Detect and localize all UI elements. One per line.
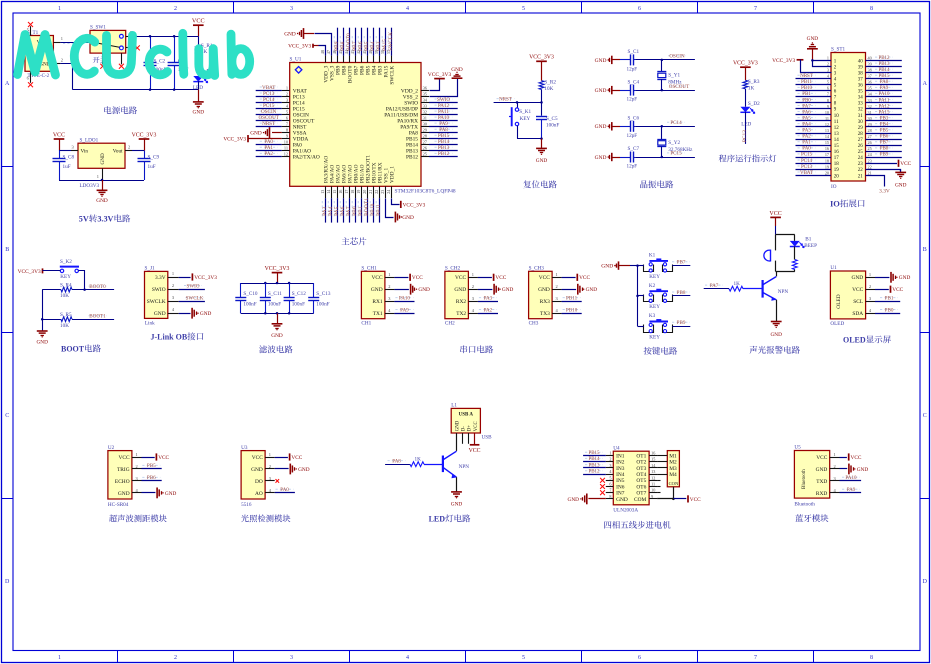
svg-text:8: 8 <box>827 98 829 103</box>
svg-text:TX3: TX3 <box>540 311 550 317</box>
svg-text:B: B <box>923 247 927 253</box>
connector S_T1 (TYPE-C power input) <box>25 30 53 79</box>
svg-text:10K: 10K <box>60 293 69 299</box>
svg-text:8: 8 <box>609 494 611 499</box>
svg-text:12: 12 <box>834 126 840 131</box>
svg-text:VCC_3V3: VCC_3V3 <box>132 132 157 138</box>
svg-text:21: 21 <box>368 190 373 194</box>
svg-text:PA11: PA11 <box>879 98 890 103</box>
svg-text:VCC: VCC <box>455 275 466 281</box>
svg-text:GND: GND <box>568 497 580 503</box>
svg-text:S_C2: S_C2 <box>154 58 166 64</box>
svg-text:5: 5 <box>609 475 611 480</box>
svg-text:11: 11 <box>651 482 655 487</box>
svg-text:GND: GND <box>538 287 550 293</box>
svg-text:BOOT0: BOOT0 <box>89 284 106 290</box>
U1 right pin names <box>384 88 418 160</box>
svg-text:VCC: VCC <box>158 455 169 461</box>
key K2 <box>644 283 673 310</box>
title J-Link OB接口 <box>151 332 204 341</box>
svg-text:35: 35 <box>868 86 872 91</box>
capacitor S_C2 100nF <box>144 36 167 89</box>
svg-text:U5: U5 <box>794 445 801 451</box>
wire T1 pin1 VBUS to switch <box>53 36 92 43</box>
svg-text:GND: GND <box>418 287 430 293</box>
svg-text:20: 20 <box>825 170 829 175</box>
title 超声波测距模块 <box>109 515 167 523</box>
svg-text:Vin: Vin <box>81 149 89 155</box>
buzzer B1 <box>764 236 817 261</box>
svg-text:L1: L1 <box>451 403 457 409</box>
svg-text:S_C1: S_C1 <box>628 49 640 55</box>
svg-text:3: 3 <box>827 68 829 73</box>
svg-text:30: 30 <box>868 116 872 121</box>
svg-text:D+: D+ <box>468 425 473 431</box>
svg-text:GND: GND <box>454 287 466 293</box>
svg-text:OT2: OT2 <box>636 460 646 466</box>
svg-text:IN2: IN2 <box>616 460 625 466</box>
U1 top pin wires and net labels <box>334 28 394 56</box>
svg-text:VCC_3V3: VCC_3V3 <box>428 72 452 78</box>
svg-text:35: 35 <box>858 90 864 95</box>
svg-text:2: 2 <box>135 464 137 469</box>
svg-text:2: 2 <box>128 145 130 150</box>
transistor Q NPN alarm <box>763 277 789 301</box>
U1 bottom pin names <box>323 155 395 183</box>
title 电源电路 <box>104 106 137 114</box>
svg-text:11: 11 <box>834 120 839 125</box>
svg-text:31: 31 <box>868 110 872 115</box>
svg-text:1: 1 <box>388 272 390 277</box>
key S_K2 boot button <box>60 259 79 280</box>
svg-text:1uF: 1uF <box>63 164 71 170</box>
svg-text:1K: 1K <box>734 281 741 287</box>
title 5V转3.3V电路 <box>79 214 130 223</box>
svg-text:OT7: OT7 <box>636 491 646 497</box>
filter VCC_3V3 power <box>265 266 290 283</box>
svg-text:3: 3 <box>609 463 611 468</box>
svg-text:OLED: OLED <box>830 321 844 327</box>
capacitor C3 10uF <box>168 36 189 89</box>
svg-text:GND: GND <box>456 420 461 431</box>
lamp emitter ground <box>451 477 463 507</box>
svg-text:12pF: 12pF <box>627 133 638 139</box>
svg-text:22: 22 <box>858 168 864 173</box>
svg-text:PB6: PB6 <box>147 475 156 481</box>
svg-text:S_Y1: S_Y1 <box>668 72 680 78</box>
svg-text:M2: M2 <box>669 460 677 466</box>
svg-text:BOOT: BOOT <box>61 345 85 354</box>
svg-text:SWIO: SWIO <box>186 283 199 289</box>
svg-text:21: 21 <box>868 170 872 175</box>
svg-text:6: 6 <box>609 482 611 487</box>
alarm parallel branch wires <box>776 235 795 277</box>
svg-text:17: 17 <box>825 152 829 157</box>
svg-text:S_U1: S_U1 <box>290 57 302 63</box>
svg-text:1: 1 <box>472 272 474 277</box>
resistor S_R2 10K <box>539 79 556 115</box>
svg-text:U2: U2 <box>108 445 115 451</box>
svg-text:OLED: OLED <box>836 294 842 308</box>
J1 pin4 ground <box>179 308 212 319</box>
indicator VCC_3V3 power <box>733 61 758 81</box>
svg-text:M3: M3 <box>669 466 677 472</box>
svg-text:11: 11 <box>825 116 829 121</box>
reset VCC_3V3 power <box>529 55 554 81</box>
svg-text:2: 2 <box>833 464 835 469</box>
svg-text:M1: M1 <box>669 453 677 459</box>
svg-text:VCC: VCC <box>579 275 590 281</box>
svg-text:GND: GND <box>100 153 106 164</box>
capacitor S_C5 100nF <box>536 115 559 138</box>
svg-text:31: 31 <box>423 115 427 120</box>
svg-text:RX1: RX1 <box>372 299 382 305</box>
alarm base resistor 1K / PA7 <box>704 281 763 291</box>
svg-text:PB14: PB14 <box>878 68 890 73</box>
capacitor S_C13 100nF <box>308 283 331 313</box>
svg-text:ULN2003A: ULN2003A <box>613 507 638 513</box>
title 串口电路 <box>460 345 493 353</box>
svg-text:RX3: RX3 <box>540 299 550 305</box>
svg-text:GND: GND <box>250 131 262 137</box>
svg-text:GND: GND <box>586 287 598 293</box>
svg-text:33: 33 <box>868 98 872 103</box>
svg-text:VCC_3V3: VCC_3V3 <box>529 55 554 61</box>
svg-text:A: A <box>923 81 928 87</box>
svg-text:VCC: VCC <box>372 275 383 281</box>
svg-text:36: 36 <box>868 80 872 85</box>
svg-text:12: 12 <box>284 152 288 157</box>
S_CH2 pin1 VCC <box>478 274 507 282</box>
svg-text:S_C9: S_C9 <box>148 155 160 161</box>
svg-text:GND: GND <box>154 311 166 317</box>
svg-text:S_R4: S_R4 <box>60 282 72 288</box>
connector S_CH2 serial <box>445 266 478 327</box>
svg-text:KEY: KEY <box>520 116 531 122</box>
svg-text:1: 1 <box>833 452 835 457</box>
svg-text:2: 2 <box>388 284 390 289</box>
svg-text:Link: Link <box>145 321 155 327</box>
power VCC symbol <box>192 18 205 37</box>
capacitor S_C10 100nF <box>235 283 258 313</box>
svg-text:K1: K1 <box>649 253 656 259</box>
ST1 left outside pin numbers <box>825 55 830 175</box>
svg-text:12pF: 12pF <box>627 67 638 73</box>
power circuit bottom rail wire <box>72 35 198 91</box>
svg-text:30: 30 <box>858 120 864 125</box>
svg-text:VCC_3V3: VCC_3V3 <box>223 137 246 143</box>
svg-text:32.768KHz: 32.768KHz <box>668 147 693 153</box>
capacitor S_C7 12pF <box>595 146 695 169</box>
svg-text:2: 2 <box>286 91 288 96</box>
svg-text:PA9: PA9 <box>847 487 856 493</box>
S_CH3 pin2 ground <box>562 284 598 295</box>
ST1 right outside pin numbers <box>868 55 873 175</box>
svg-text:SCL: SCL <box>853 299 863 305</box>
title 复位电路 <box>523 180 556 188</box>
svg-text:Bluetooth: Bluetooth <box>794 501 815 507</box>
title 四相五线步进电机 <box>604 521 670 529</box>
svg-text:22: 22 <box>374 190 379 194</box>
svg-text:3.3V: 3.3V <box>155 275 166 281</box>
svg-text:VCC: VCC <box>474 421 479 431</box>
switch S_SW1 (power switch) <box>90 25 126 53</box>
svg-text:17: 17 <box>834 156 840 161</box>
svg-text:PB8: PB8 <box>677 290 686 296</box>
ST1 pin 21 3.3V net <box>866 176 890 195</box>
LDO ground rail <box>59 168 144 204</box>
svg-text:VCC: VCC <box>769 211 781 217</box>
wire K2 to BOOT0 node <box>79 271 85 290</box>
keys ground <box>601 261 638 269</box>
svg-text:33: 33 <box>858 102 864 107</box>
svg-text:PA6: PA6 <box>802 110 811 115</box>
U1 bottom pin wires and net labels <box>322 198 382 223</box>
svg-text:VCC_3V3: VCC_3V3 <box>265 266 290 272</box>
svg-text:CH1: CH1 <box>361 321 371 327</box>
svg-text:GND: GND <box>451 502 463 508</box>
svg-text:3.3V: 3.3V <box>879 189 890 195</box>
U5 pin3 PA10 wire <box>840 475 862 481</box>
svg-text:S_CH3: S_CH3 <box>529 266 545 272</box>
svg-text:23: 23 <box>858 162 864 167</box>
svg-text:PB0: PB0 <box>802 98 811 103</box>
svg-text:10K: 10K <box>544 86 553 92</box>
svg-text:OLED: OLED <box>843 336 866 345</box>
svg-text:IN3: IN3 <box>616 466 625 472</box>
svg-text:S_R5: S_R5 <box>60 312 72 318</box>
svg-text:PC14: PC14 <box>801 159 813 164</box>
L1 GND pin wire to transistor <box>456 433 458 451</box>
title OLED显示屏 <box>843 335 891 344</box>
OLED pin4 PB0 wire <box>875 307 900 313</box>
U5 pin1 VCC <box>840 453 862 461</box>
svg-text:26: 26 <box>858 144 864 149</box>
LED S_D2 <box>740 101 760 144</box>
VCC_3V3 power from LDO output <box>125 132 156 150</box>
S_CH1 pin1 VCC <box>394 274 423 282</box>
resistor S_R4 10K / BOOT0 <box>42 282 114 299</box>
svg-text:38: 38 <box>858 71 864 76</box>
svg-text:DO: DO <box>255 479 263 485</box>
svg-text:NRST: NRST <box>800 74 813 79</box>
svg-text:48: 48 <box>320 50 325 54</box>
svg-text:27: 27 <box>868 134 872 139</box>
svg-text:PB6: PB6 <box>880 135 889 140</box>
svg-text:SDA: SDA <box>852 311 863 317</box>
svg-text:OSCIN: OSCIN <box>669 54 685 60</box>
svg-text:VCC: VCC <box>192 18 205 25</box>
BOOT pulldown rail and ground <box>36 290 48 346</box>
svg-text:S_SW1: S_SW1 <box>90 25 106 31</box>
U3 pin1 VCC <box>275 453 303 461</box>
svg-text:22: 22 <box>868 164 872 169</box>
keys bus wire <box>636 266 639 327</box>
svg-text:2: 2 <box>61 58 63 63</box>
U4 COM to VCC <box>657 487 701 503</box>
svg-text:PA0: PA0 <box>802 147 811 152</box>
crystal S_Y2 32.768KHz <box>657 125 693 158</box>
svg-text:PB11: PB11 <box>801 80 812 85</box>
svg-text:100nF: 100nF <box>268 302 281 308</box>
svg-text:8MHz: 8MHz <box>668 79 682 85</box>
svg-text:K3: K3 <box>649 313 656 319</box>
svg-text:VCC: VCC <box>539 275 550 281</box>
svg-text:PB9: PB9 <box>677 320 686 326</box>
svg-text:PB12: PB12 <box>878 56 890 61</box>
svg-text:GND: GND <box>193 110 205 116</box>
svg-text:PB1: PB1 <box>885 295 894 301</box>
svg-text:PB5: PB5 <box>147 463 156 469</box>
svg-text:2: 2 <box>172 283 174 288</box>
U1 top pin stubs <box>320 49 391 62</box>
svg-text:S_C7: S_C7 <box>628 146 640 152</box>
svg-text:PB11: PB11 <box>566 295 578 301</box>
S_CH2 pin3 PA3 wire <box>478 295 498 301</box>
svg-text:10K: 10K <box>60 323 69 329</box>
svg-text:23: 23 <box>868 158 872 163</box>
svg-text:PC15: PC15 <box>801 153 813 158</box>
title 声光报警电路 <box>750 346 800 354</box>
svg-text:1: 1 <box>286 85 288 90</box>
svg-text:1: 1 <box>58 6 61 12</box>
svg-text:PA2/TX/AO: PA2/TX/AO <box>293 155 320 161</box>
svg-text:PB15: PB15 <box>878 74 890 79</box>
svg-text:VCC: VCC <box>690 497 701 503</box>
filter top rail <box>241 282 314 285</box>
svg-text:PB8: PB8 <box>880 147 889 152</box>
svg-text:CH2: CH2 <box>445 321 455 327</box>
SW1 bottom no-connect pins <box>100 53 124 69</box>
svg-text:TX1: TX1 <box>373 311 383 317</box>
svg-text:D: D <box>5 579 10 585</box>
svg-text:BOOT1: BOOT1 <box>89 314 106 320</box>
svg-text:NPN: NPN <box>459 464 470 470</box>
L1 VCC pin to VCC power <box>469 433 481 454</box>
svg-text:VCC_3V3: VCC_3V3 <box>194 275 217 281</box>
svg-text:40: 40 <box>868 55 872 60</box>
svg-text:27: 27 <box>858 138 864 143</box>
U1 right pin wires and net labels <box>421 85 458 157</box>
key K3 <box>644 313 673 340</box>
svg-text:PA9: PA9 <box>400 307 409 313</box>
svg-text:STM32F103C8T6_LQFP48: STM32F103C8T6_LQFP48 <box>395 189 456 195</box>
svg-text:100nF: 100nF <box>243 302 256 308</box>
U1 bottom pin stubs <box>320 186 391 198</box>
svg-text:PB12: PB12 <box>438 151 450 157</box>
driver U4 ULN2003A body <box>606 445 657 513</box>
svg-text:15: 15 <box>825 140 829 145</box>
svg-text:39: 39 <box>868 61 872 66</box>
svg-text:GND: GND <box>251 467 263 473</box>
title IO拓展口 <box>830 199 865 209</box>
svg-text:D: D <box>923 579 928 585</box>
crystal S_Y1 8MHz <box>657 59 682 92</box>
svg-text:PA5: PA5 <box>802 116 811 121</box>
title 光照检测模块 <box>241 514 290 522</box>
svg-text:14: 14 <box>834 138 840 143</box>
svg-text:GND: GND <box>595 124 607 130</box>
svg-text:VCC: VCC <box>495 275 506 281</box>
svg-text:13: 13 <box>825 128 829 133</box>
svg-text:2: 2 <box>869 284 871 289</box>
capacitor S_C8 1uF <box>53 151 75 180</box>
svg-text:PB3: PB3 <box>880 116 889 121</box>
svg-text:AO: AO <box>255 491 263 497</box>
svg-text:ECHO: ECHO <box>115 479 130 485</box>
reset bottom rail and ground <box>517 137 547 164</box>
svg-text:18: 18 <box>834 162 840 167</box>
svg-text:S_K2: S_K2 <box>60 259 72 265</box>
ST1 pin 22 ground <box>866 169 907 188</box>
J1 pin2 SWIO wire <box>179 283 205 289</box>
svg-text:19: 19 <box>356 190 361 194</box>
svg-text:2: 2 <box>827 61 829 66</box>
svg-text:PB13: PB13 <box>878 62 890 67</box>
U3 pin3 no-connect <box>276 479 280 483</box>
svg-text:IN1: IN1 <box>616 453 625 459</box>
svg-text:PB13: PB13 <box>588 463 600 468</box>
net label PC13 vertical <box>742 130 748 142</box>
J1 pin1 VCC_3V3 <box>179 273 218 281</box>
switch label 开关 <box>93 56 107 63</box>
OLED pin3 PB1 wire <box>875 295 900 301</box>
svg-text:SWCLK: SWCLK <box>147 299 166 305</box>
svg-text:PA12: PA12 <box>879 104 890 109</box>
svg-text:S_R2: S_R2 <box>544 79 556 85</box>
svg-text:21: 21 <box>858 174 864 179</box>
svg-text:VCC: VCC <box>291 455 302 461</box>
U3 pin4 PA0 wire <box>275 487 295 493</box>
title 滤波电路 <box>259 345 293 353</box>
svg-text:OT6: OT6 <box>636 484 646 490</box>
svg-text:S_C8: S_C8 <box>63 155 75 161</box>
svg-text:VCC: VCC <box>851 455 862 461</box>
svg-text:5V: 5V <box>79 215 89 224</box>
svg-text:6: 6 <box>638 655 641 661</box>
U1 VSSA pin8 ground <box>250 127 281 138</box>
svg-text:13: 13 <box>320 190 325 194</box>
svg-text:VCC: VCC <box>53 132 65 138</box>
svg-text:GND: GND <box>816 467 828 473</box>
MCU S_U1 STM32F103C8T6 body <box>290 57 456 195</box>
svg-text:1: 1 <box>827 55 829 60</box>
svg-text:PB5: PB5 <box>880 129 889 134</box>
module U3 5516 <box>241 445 275 508</box>
svg-text:S_R3: S_R3 <box>748 79 760 85</box>
svg-text:CON: CON <box>669 481 679 486</box>
svg-text:PB7: PB7 <box>677 260 686 266</box>
OLED pin1 ground <box>875 272 910 283</box>
svg-text:J-Link OB: J-Link OB <box>151 333 188 342</box>
svg-text:PA0: PA0 <box>280 487 289 493</box>
svg-text:26: 26 <box>868 140 872 145</box>
svg-text:VCC: VCC <box>412 275 423 281</box>
svg-text:PA3: PA3 <box>484 295 493 301</box>
svg-text:GND: GND <box>165 491 177 497</box>
svg-text:PA10: PA10 <box>399 295 411 301</box>
svg-text:PA7: PA7 <box>802 104 811 109</box>
svg-text:32: 32 <box>423 109 427 114</box>
title 蓝牙模块 <box>795 514 828 522</box>
svg-text:GND: GND <box>298 467 310 473</box>
svg-text:1uF: 1uF <box>148 164 156 170</box>
svg-text:PB9: PB9 <box>880 153 889 158</box>
svg-text:1: 1 <box>869 272 871 277</box>
svg-text:GND: GND <box>595 155 607 161</box>
key S_K1 reset button <box>509 102 532 138</box>
U1 VDD_2 pin36 VCC_3V3 <box>428 72 452 91</box>
